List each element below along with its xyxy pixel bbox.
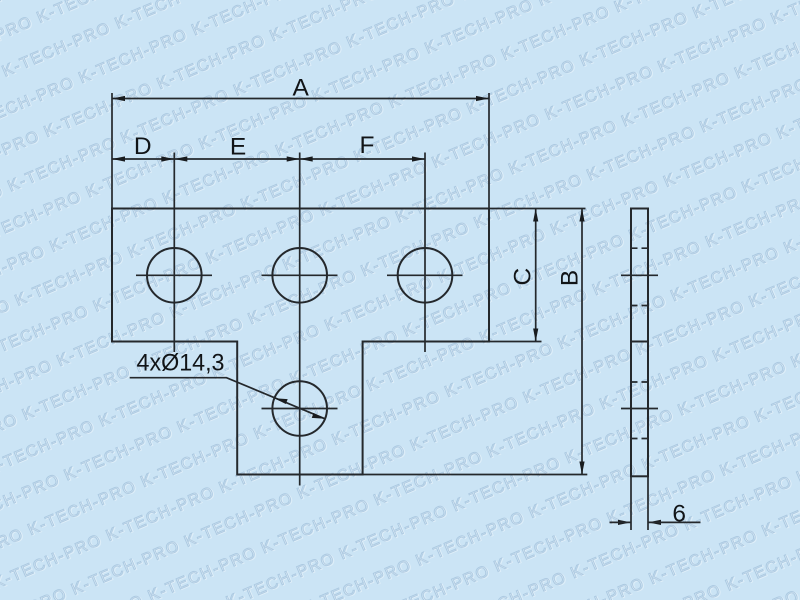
hole H4	[272, 381, 327, 436]
side view centerline hole row	[621, 274, 658, 276]
extension line side view right	[647, 477, 649, 530]
side view step edge	[631, 341, 648, 343]
dimension line B	[581, 209, 583, 475]
extension line side view left	[630, 477, 632, 530]
arrow thickness 6 left	[618, 520, 631, 525]
arrow C top	[533, 209, 538, 222]
svg-text:A: A	[293, 75, 310, 102]
arrow A left	[112, 96, 125, 101]
arrow D right / E left pair at first hole	[161, 156, 174, 161]
side view centerline hole H4	[621, 408, 658, 410]
hole H2	[272, 248, 327, 303]
extension line left (A/D datum)	[111, 93, 113, 209]
hidden line hole H4 top	[631, 381, 648, 383]
hidden line hole H4 bottom	[631, 438, 648, 440]
svg-text:4xØ14,3: 4xØ14,3	[137, 350, 225, 377]
dimension line A	[112, 98, 489, 100]
arrow D left	[112, 156, 125, 161]
centerline horizontal hole H3	[387, 274, 463, 276]
svg-text:F: F	[360, 132, 375, 159]
side view outline	[631, 209, 648, 477]
bottom extension for B	[363, 474, 588, 476]
step extension for C	[489, 341, 542, 343]
svg-text:D: D	[134, 133, 152, 160]
dimension line C	[535, 209, 537, 342]
arrow B bottom	[579, 462, 584, 475]
dimension line 6 left part	[610, 521, 632, 523]
leader arrow upper-left on hole H4	[274, 398, 287, 404]
hole H3	[398, 248, 453, 303]
leader line for hole size	[130, 378, 325, 419]
arrow E right / F left pair at second hole	[287, 156, 300, 161]
svg-text:E: E	[230, 133, 246, 160]
hidden line hole row bottom	[631, 305, 648, 307]
arrow B top	[579, 209, 584, 222]
svg-text:B: B	[557, 270, 584, 286]
arrow thickness 6 right	[648, 520, 661, 525]
svg-text:C: C	[510, 268, 537, 286]
centerline horizontal hole H2	[262, 274, 338, 276]
top edge extension for C and B	[489, 208, 586, 210]
arrow A right	[476, 96, 489, 101]
hidden line hole row top	[631, 247, 648, 249]
arrow F right	[412, 156, 425, 161]
arrow C bottom	[533, 329, 538, 342]
svg-text:6: 6	[672, 500, 686, 527]
hole H1	[147, 248, 202, 303]
extension line right of A	[488, 93, 490, 209]
leader arrow lower-right on hole H4	[312, 413, 325, 419]
centerline horizontal hole H4	[262, 408, 338, 410]
dimension line 6 right part	[648, 521, 701, 523]
centerline vertical hole H1	[173, 153, 175, 353]
centerline vertical holes H2/H4	[299, 153, 301, 486]
centerline horizontal hole H1	[136, 274, 212, 276]
dimension line D E F	[112, 158, 425, 160]
centerline vertical hole H3	[424, 153, 426, 353]
plate outline (front view)	[112, 209, 489, 475]
